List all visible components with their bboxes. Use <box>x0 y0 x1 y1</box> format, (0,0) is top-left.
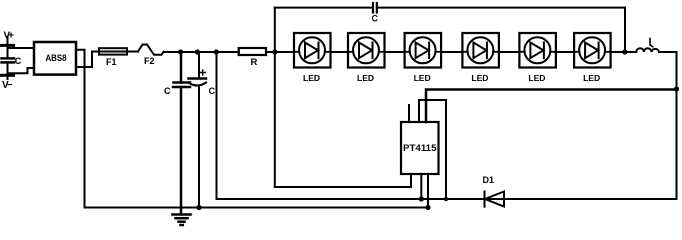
svg-text:C: C <box>372 14 379 24</box>
svg-text:F1: F1 <box>106 57 117 67</box>
LED module 1 <box>294 33 331 83</box>
capacitor C filter 1 <box>180 52 183 83</box>
node junction SW net <box>674 86 679 91</box>
wire LED5-LED6 <box>556 51 574 53</box>
LED module 2 <box>348 33 385 83</box>
capacitor C input <box>2 57 15 60</box>
LED module 5 <box>519 33 556 83</box>
wire inductor to right vertical <box>659 51 677 53</box>
svg-text:LED: LED <box>471 73 488 83</box>
capacitor C top <box>372 3 374 13</box>
wire ground rail <box>85 207 429 209</box>
wire V+ to ABS8 <box>8 47 35 49</box>
wire pin top 2 to feedback drop <box>419 100 446 199</box>
wire ABS8 top-right to ground rail <box>76 50 85 208</box>
node terminal bar top <box>2 44 14 47</box>
node junction before inductor <box>622 49 627 54</box>
svg-text:LED: LED <box>583 73 600 83</box>
svg-text:C: C <box>15 56 22 66</box>
svg-text:ABS8: ABS8 <box>46 53 67 64</box>
capacitor C filter 2 electrolytic <box>198 52 200 79</box>
wire top rail right segment <box>377 7 625 9</box>
wire main rail to resistor <box>164 51 239 53</box>
svg-text:LED: LED <box>528 73 545 83</box>
inductor L <box>636 48 659 52</box>
svg-text:PT4115: PT4115 <box>403 143 437 153</box>
node junction feedback on diode rail <box>444 197 448 201</box>
svg-text:D1: D1 <box>483 175 495 185</box>
svg-text:LED: LED <box>414 73 431 83</box>
wire top rail right drop <box>624 8 626 52</box>
wire pin bottom 3 to ground rail <box>427 174 429 208</box>
wire pin bottom 2 to diode rail <box>420 174 422 199</box>
fuse F1 <box>92 51 138 53</box>
wire input negative lead <box>7 62 9 79</box>
node terminal bar bottom <box>2 74 14 77</box>
svg-text:V−: V− <box>2 80 13 91</box>
LED module 4 <box>462 33 499 83</box>
svg-text:V+: V+ <box>4 31 15 42</box>
svg-text:LED: LED <box>303 73 320 83</box>
wire right vertical <box>676 52 678 199</box>
wire LED4-LED5 <box>499 51 520 53</box>
wire resistor to LED1 <box>266 51 294 53</box>
LED module 3 <box>405 33 442 83</box>
svg-text:LED: LED <box>357 73 374 83</box>
wire input positive lead <box>7 37 9 58</box>
bridge rectifier ABS8 <box>34 42 76 75</box>
wire pin bottom 1 to loop rail <box>275 174 411 187</box>
wire top rail left segment <box>275 7 373 9</box>
node junction cap1 <box>178 49 183 54</box>
node junction cap2 <box>195 49 200 54</box>
ground <box>180 208 183 214</box>
svg-text:C: C <box>164 86 171 96</box>
wire V- to ABS8 <box>8 68 35 73</box>
node junction R output <box>272 49 277 54</box>
resistor R <box>239 48 266 55</box>
inductor F2 <box>138 45 164 55</box>
node junction wire3 <box>214 49 219 54</box>
LED module 6 <box>574 33 611 83</box>
wire drop to diode rail <box>217 52 677 199</box>
wire LED6 to inductor <box>611 51 636 53</box>
svg-text:F2: F2 <box>144 56 155 66</box>
wire LED2-LED3 <box>385 51 405 53</box>
wire pin top 3 SW line <box>426 90 677 123</box>
wire LED1-LED2 <box>331 51 349 53</box>
wire ABS8 bottom-right up to fuse <box>76 52 99 68</box>
node junction cap2 ground <box>196 205 201 210</box>
svg-text:C: C <box>209 86 216 96</box>
IC PT4115 <box>401 122 439 174</box>
wire LED3-LED4 <box>441 51 462 53</box>
pin stub top 1 <box>408 105 410 122</box>
wire parallel loop left vertical <box>274 8 276 187</box>
svg-text:R: R <box>251 57 258 68</box>
